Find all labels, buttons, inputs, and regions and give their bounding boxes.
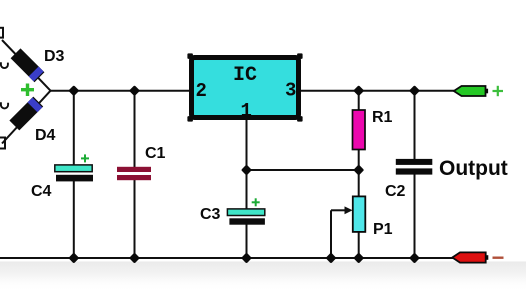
resistor R1 bbox=[353, 110, 366, 150]
wire P1 wiper bbox=[330, 210, 332, 258]
transformer terminal stub (top-left) bbox=[0, 28, 3, 38]
svg-text:3: 3 bbox=[285, 80, 296, 102]
svg-text:C2: C2 bbox=[385, 183, 406, 200]
svg-text:R1: R1 bbox=[372, 109, 393, 126]
junction bottom rail P1 bbox=[353, 252, 364, 263]
potentiometer P1 bbox=[353, 196, 366, 232]
junction top rail R1 bbox=[353, 85, 364, 96]
wire C1 vertical bbox=[134, 91, 136, 167]
svg-text:P1: P1 bbox=[373, 221, 393, 238]
wire C4 vertical bbox=[73, 91, 75, 166]
svg-text:Output: Output bbox=[439, 157, 508, 180]
IC U1 body bbox=[187, 53, 193, 59]
wire mid rail (pin1 node to R1/P1 node) bbox=[247, 169, 359, 171]
C3 polarity + bbox=[252, 198, 260, 206]
svg-text:D3: D3 bbox=[44, 48, 65, 65]
wire P1 leads bbox=[358, 170, 360, 197]
node + (bridge positive, green plus) bbox=[21, 84, 34, 97]
capacitor C4 (electrolytic) bbox=[55, 165, 92, 172]
svg-text:D4: D4 bbox=[35, 127, 56, 144]
winding loop top (AC symbol) bbox=[1, 62, 8, 68]
- output sign bbox=[493, 257, 504, 259]
diode D4 bbox=[9, 97, 43, 131]
+ output sign bbox=[493, 86, 504, 96]
output terminal - (red lug) bbox=[452, 252, 488, 262]
capacitor C1 bbox=[117, 167, 151, 172]
wire C2 vertical bbox=[414, 91, 416, 160]
wire AC bottom to bridge vertex (through D4) bbox=[2, 91, 51, 144]
junction mid rail R1/P1 bbox=[353, 164, 364, 175]
svg-text:2: 2 bbox=[196, 80, 207, 102]
junction top rail C2 bbox=[409, 85, 420, 96]
wire top rail (vertex to IC pin 2) bbox=[51, 90, 191, 92]
wire bottom rail bbox=[0, 257, 453, 259]
winding loop bottom (AC symbol) bbox=[1, 102, 8, 108]
wire AC top to bridge vertex (through D3) bbox=[2, 40, 51, 91]
capacitor C3 (electrolytic) bbox=[227, 209, 264, 216]
svg-text:C1: C1 bbox=[145, 145, 166, 162]
junction mid rail pin1 bbox=[241, 164, 252, 175]
capacitor C2 bbox=[396, 159, 433, 165]
svg-text:1: 1 bbox=[241, 100, 252, 122]
junction top rail C1 bbox=[129, 85, 140, 96]
junction top rail C4 bbox=[68, 85, 79, 96]
junction bottom rail C1 bbox=[129, 252, 140, 263]
svg-text:IC: IC bbox=[233, 64, 257, 87]
bottom shadow band bbox=[0, 262, 526, 292]
wire C3 vertical bbox=[246, 170, 248, 210]
junction bottom rail C2 bbox=[409, 252, 420, 263]
junction bottom rail wiper bbox=[325, 252, 336, 263]
wire R1 leads bbox=[358, 91, 360, 111]
output terminal + (green lug) bbox=[454, 86, 488, 96]
wire IC pin1 vertical bbox=[246, 120, 248, 170]
C4 polarity + bbox=[81, 154, 89, 162]
svg-text:C3: C3 bbox=[200, 206, 221, 223]
svg-text:C4: C4 bbox=[31, 183, 52, 200]
junction bottom rail C3 bbox=[241, 252, 252, 263]
wire top rail (IC pin 3 to + terminal) bbox=[300, 90, 454, 92]
junction bottom rail C4 bbox=[68, 252, 79, 263]
wiper arrowhead bbox=[345, 206, 353, 214]
transformer terminal stub (bottom-left) bbox=[0, 138, 5, 149]
diode D3 bbox=[11, 48, 45, 82]
